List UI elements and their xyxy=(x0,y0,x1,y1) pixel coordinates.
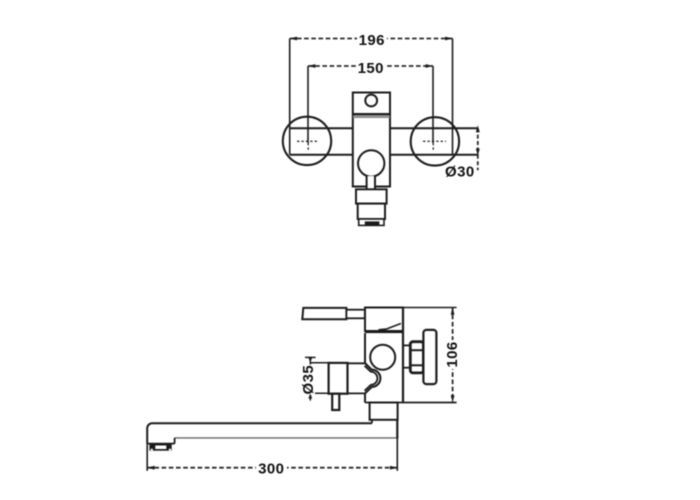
check valve connector bottom line xyxy=(348,392,366,394)
dimension 150 line xyxy=(308,65,433,67)
dimension 106 arrow bottom xyxy=(451,395,455,402)
dimension 196 extension line right xyxy=(452,39,454,155)
body bottom line and 106 extension xyxy=(365,402,457,404)
dimension D35 extension bottom xyxy=(310,392,328,394)
connector nose inner xyxy=(365,366,378,391)
lever handle xyxy=(302,308,346,319)
label 106 xyxy=(444,340,461,369)
spout tip step xyxy=(174,438,176,444)
dimension D35 line bottom segment xyxy=(309,394,311,401)
dimension 150 arrow right xyxy=(426,64,433,68)
aerator block xyxy=(149,443,171,450)
wall flange circle left xyxy=(283,117,331,165)
body top block xyxy=(365,308,403,332)
svg-text:Ø35: Ø35 xyxy=(300,365,317,395)
dimension D30 arrow bottom xyxy=(476,149,480,156)
dimension D30 arrow top xyxy=(476,125,480,132)
dimension 196 arrow left xyxy=(290,37,297,41)
svg-text:150: 150 xyxy=(358,60,384,77)
wire: body tube bottom line xyxy=(290,154,478,156)
dimension 150 extension line left xyxy=(307,66,309,143)
body right edge xyxy=(402,308,404,403)
center mark right flange xyxy=(423,141,446,150)
dimension 196 extension line left xyxy=(289,39,291,155)
spout tip bottom xyxy=(147,443,174,445)
valve stem xyxy=(332,394,339,410)
label 150 xyxy=(356,60,386,77)
dimension D35 arrow bottom xyxy=(308,393,312,398)
check valve connector top line xyxy=(348,362,366,364)
dimension D35 extension top xyxy=(310,362,328,364)
label D30 xyxy=(444,164,476,181)
wire: body tube top line xyxy=(290,127,478,129)
spout right end edge xyxy=(396,420,398,439)
dimension 150 arrow left xyxy=(308,64,315,68)
label 300 xyxy=(256,461,287,478)
wall flange escutcheon xyxy=(423,330,436,384)
dimension 300 arrow right xyxy=(390,466,397,470)
top screw circle xyxy=(365,95,377,107)
spout top line xyxy=(147,423,372,443)
mixer body rectangle xyxy=(353,93,390,187)
cartridge circle xyxy=(370,345,395,370)
connector nose outer xyxy=(365,363,381,394)
lever base wedge xyxy=(379,324,401,330)
spout bottom line xyxy=(175,437,398,439)
outlet block upper xyxy=(356,189,387,203)
dimension 300 extension right xyxy=(396,439,398,471)
wall connector stub bottom xyxy=(403,367,410,369)
dimension 300 extension left xyxy=(146,444,148,471)
dimension D35 line top segment xyxy=(309,357,311,365)
svg-text:Ø30: Ø30 xyxy=(445,164,475,181)
body cap shadow line xyxy=(353,116,390,118)
dimension D35 arrow top xyxy=(308,358,312,363)
valve body box xyxy=(329,363,348,394)
svg-text:196: 196 xyxy=(359,32,385,49)
label D35 xyxy=(300,365,317,395)
dimension D30 line xyxy=(477,128,479,155)
body left edge lower xyxy=(364,394,366,403)
wall nut xyxy=(410,342,423,373)
svg-text:300: 300 xyxy=(258,461,284,478)
body cap line xyxy=(353,113,390,115)
dimension 106 extension top xyxy=(403,307,457,309)
dimension 106 line xyxy=(452,308,454,403)
wall connector stub top xyxy=(403,344,410,346)
dimension D35 top tick xyxy=(305,356,316,358)
knob stem xyxy=(367,176,375,189)
dimension 196 line xyxy=(290,38,453,40)
aerator dark band xyxy=(365,221,380,225)
dimension 196 arrow right xyxy=(445,37,452,41)
center mark left flange xyxy=(297,141,319,151)
dimension 106 arrow top xyxy=(451,308,455,315)
outlet block lower xyxy=(358,204,385,219)
body cap band xyxy=(365,331,403,334)
dimension 300 arrow left xyxy=(147,466,154,470)
dimension 300 line xyxy=(147,467,397,469)
wall flange circle right xyxy=(411,117,459,165)
spout connector block xyxy=(370,403,398,420)
diverter knob circle xyxy=(358,150,384,176)
aerator ring xyxy=(359,219,384,225)
label 196 xyxy=(357,32,387,49)
dimension 150 extension line right xyxy=(432,66,434,143)
lever adapter xyxy=(346,310,364,319)
spout step xyxy=(371,420,373,424)
body left edge upper xyxy=(364,333,366,363)
svg-text:106: 106 xyxy=(444,341,461,367)
